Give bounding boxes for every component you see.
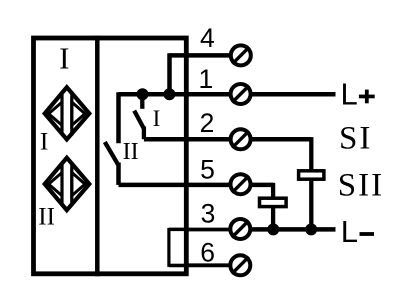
- wire L+ from terminal 1 to label: [251, 92, 336, 97]
- wire terminal 4 branch horizontal: [170, 53, 231, 58]
- switch I output leg: [142, 127, 146, 140]
- wire switch II to terminal 5: [119, 183, 231, 188]
- switch II blade: [105, 142, 118, 165]
- svg-text:I: I: [40, 126, 49, 155]
- wire SII branch vertical upper: [309, 137, 313, 172]
- junction node on L- bus (resistor branch): [267, 223, 279, 235]
- enclosure divider: [95, 36, 100, 276]
- wire terminal 6 from internal resistor: [169, 263, 230, 267]
- svg-text:I: I: [59, 41, 69, 76]
- resistor terminal-5 branch: [260, 198, 287, 206]
- wire switch I to terminal 2: [144, 137, 230, 142]
- switch II output leg: [116, 163, 121, 185]
- svg-text:I: I: [153, 106, 161, 131]
- terminal 3 screw: [230, 219, 250, 239]
- internal resistor across terminals 3 and 6: [169, 230, 186, 266]
- junction node on L- bus (SII branch): [305, 223, 317, 235]
- terminal 2 screw: [231, 129, 251, 149]
- switch I blade: [134, 111, 144, 129]
- sensor symbol I diamond: [45, 87, 90, 139]
- svg-text:1: 1: [199, 64, 214, 94]
- resistor SII branch: [299, 171, 324, 179]
- wire resistor branch vertical upper: [271, 183, 275, 200]
- terminal 5 screw: [231, 174, 251, 194]
- svg-text:4: 4: [200, 23, 215, 53]
- junction node on L+ bus (terminal 4 tap): [163, 88, 175, 100]
- svg-text:SI: SI: [339, 121, 372, 157]
- junction node on L+ bus (switch I tap): [137, 88, 149, 100]
- svg-text:SII: SII: [338, 168, 384, 204]
- wire switch II fixed contact stub: [116, 92, 121, 143]
- wire terminal 3 from internal resistor: [169, 228, 230, 232]
- switch I fixed contact stub: [140, 94, 144, 109]
- terminal 1 screw: [231, 84, 251, 104]
- wire L- bus from terminal 3 to label: [251, 227, 336, 232]
- terminal 4 screw: [231, 45, 251, 65]
- svg-text:2: 2: [200, 108, 215, 138]
- wire SII branch vertical lower: [309, 178, 313, 229]
- svg-text:II: II: [123, 139, 139, 165]
- sensor symbol II diamond: [45, 158, 90, 210]
- svg-text:II: II: [38, 204, 55, 231]
- wire terminal 2 to SII branch: [251, 137, 311, 142]
- wire L+ bus inside box to terminal 1: [119, 92, 231, 97]
- svg-text:5: 5: [200, 154, 215, 184]
- enclosure outer box: [34, 38, 187, 274]
- svg-text:3: 3: [201, 199, 216, 229]
- wire terminal 5 to resistor branch: [251, 183, 273, 188]
- svg-text:L: L: [341, 77, 358, 112]
- wire resistor branch vertical lower: [271, 206, 275, 230]
- terminal 6 screw: [230, 255, 250, 275]
- svg-text:L: L: [341, 214, 358, 249]
- wire terminal 4 branch vertical: [167, 53, 172, 94]
- svg-text:6: 6: [200, 238, 215, 268]
